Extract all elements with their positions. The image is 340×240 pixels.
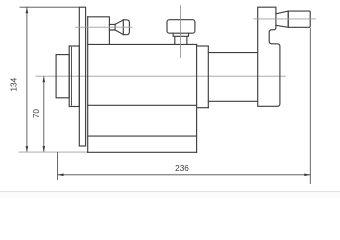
- extension 236 right: [309, 29, 311, 184]
- collar bottom: [197, 107, 209, 109]
- knob centerline: [76, 26, 133, 28]
- cone knob cap: [123, 20, 129, 35]
- handle cylinder: [288, 11, 310, 27]
- flange: [79, 7, 85, 146]
- block A clamp housing: [88, 17, 110, 45]
- svg-text:236: 236: [175, 164, 189, 173]
- handle taper: [276, 11, 288, 27]
- body right face V1: [196, 44, 198, 152]
- cone knob body: [115, 20, 123, 35]
- barrel bottom edge: [88, 104, 197, 106]
- base bottom edge: [88, 151, 197, 153]
- ring A: [56, 55, 69, 98]
- collar top: [197, 45, 209, 47]
- centerline main axis: [36, 75, 286, 77]
- dimension 236: [58, 164, 311, 176]
- extension 236 left: [57, 153, 59, 180]
- cone knob stem: [109, 24, 115, 30]
- handle centerline: [254, 18, 316, 20]
- extension line top: [20, 6, 79, 8]
- svg-text:134: 134: [10, 77, 19, 91]
- clamp knob collar: [173, 33, 188, 44]
- dimension 134: [10, 7, 29, 152]
- bracket column: [258, 7, 280, 106]
- body left face: [87, 17, 89, 153]
- rear cylinder bottom: [208, 100, 257, 102]
- dimension 70: [32, 76, 45, 152]
- rear cylinder top: [208, 52, 257, 54]
- ring B: [69, 46, 79, 107]
- baseline ground: [19, 151, 88, 153]
- page edge faint line: [0, 191, 340, 193]
- svg-text:70: 70: [32, 109, 41, 119]
- collar right face V2: [207, 46, 209, 108]
- body top edge: [88, 43, 197, 45]
- clamp knob cap: [167, 20, 195, 34]
- body bottom edge: [88, 135, 197, 137]
- clamp knob centerline: [180, 6, 182, 58]
- chamfer line: [71, 47, 73, 105]
